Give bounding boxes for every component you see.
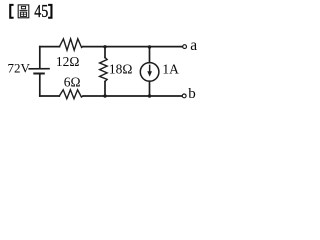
current source I1 arrow (downward) [147, 65, 152, 77]
title right lenticular bracket [48, 4, 52, 19]
current source I1 1A circle [140, 63, 159, 82]
node dot top-left (18-ohm / top wire junction) [103, 45, 106, 48]
wire left vertical lower (battery - to bottom wire) [39, 74, 41, 97]
svg-text:1A: 1A [162, 61, 179, 76]
svg-text:12Ω: 12Ω [56, 54, 80, 69]
svg-text:72V: 72V [8, 60, 31, 75]
wire top from battery to 12-ohm resistor [40, 46, 60, 48]
svg-text:18Ω: 18Ω [109, 61, 133, 76]
svg-text:b: b [188, 86, 196, 102]
title left lenticular bracket [9, 4, 13, 19]
node dot bottom-left (18-ohm / bottom wire junction) [103, 94, 106, 97]
wire top from 12-ohm to terminal a [83, 46, 183, 48]
wire bottom from 6-ohm to terminal b [83, 95, 182, 97]
wire left vertical upper (battery + to top wire) [39, 47, 41, 69]
svg-text:45: 45 [34, 3, 48, 22]
title CJK glyph (figure character) [18, 5, 29, 18]
resistor R 6ohm (bottom horizontal zigzag) [59, 90, 83, 99]
wire current source bottom lead [149, 81, 151, 96]
wire 18-ohm bottom lead [104, 82, 106, 97]
wire current source top lead [149, 47, 151, 63]
svg-text:6Ω: 6Ω [64, 75, 81, 90]
resistor R 18ohm (vertical zigzag) [100, 58, 108, 82]
battery V1 72V long plate [29, 68, 49, 70]
wire 18-ohm top lead [104, 47, 106, 58]
node dot bottom-right (current source / bottom wire junction) [148, 94, 151, 97]
svg-text:a: a [190, 37, 197, 54]
terminal b open circle [182, 94, 186, 98]
resistor R 12ohm (top horizontal zigzag) [60, 39, 84, 50]
node dot top-right (current source / top wire junction) [148, 45, 151, 48]
battery V1 72V short plate [34, 73, 44, 75]
wire bottom from battery to 6-ohm resistor [40, 95, 60, 97]
terminal a open circle [183, 45, 187, 49]
